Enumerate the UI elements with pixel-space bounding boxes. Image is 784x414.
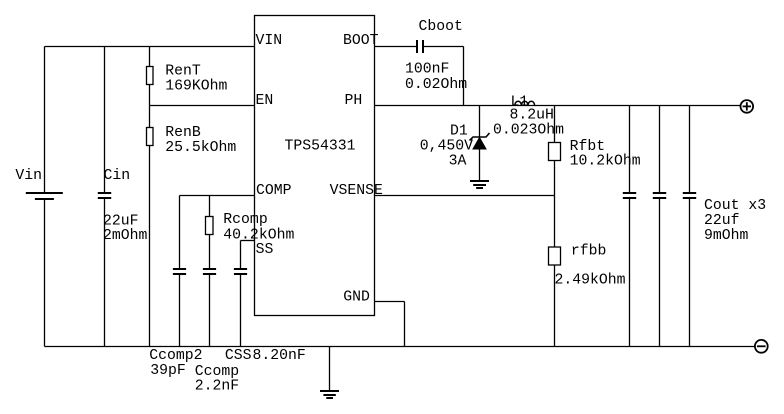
inductor L1 bbox=[515, 101, 535, 105]
node Vout- return terminal bbox=[755, 340, 768, 353]
svg-text:rfbb: rfbb bbox=[571, 244, 607, 260]
wire Cout2 top segment bbox=[659, 106, 661, 194]
wire RenB bottom segment to ground bus bbox=[149, 146, 151, 347]
svg-text:CSS: CSS bbox=[225, 348, 252, 364]
svg-text:39pF: 39pF bbox=[150, 363, 186, 379]
wire VSENSE net bbox=[375, 195, 555, 197]
op-amp U1 IC box TPS54331 bbox=[255, 16, 375, 316]
wire Cin bottom segment bbox=[104, 198, 106, 347]
svg-text:3A: 3A bbox=[449, 154, 467, 170]
svg-text:40.2kOhm: 40.2kOhm bbox=[223, 227, 294, 243]
wire GND drop to ground bus bbox=[404, 302, 406, 347]
battery Vin symbol bbox=[26, 193, 63, 199]
wire Cboot right plate to corner bbox=[423, 46, 464, 48]
svg-text:25.5kOhm: 25.5kOhm bbox=[165, 140, 236, 156]
node Vout+ output terminal bbox=[741, 100, 754, 113]
capacitor Ccomp2 symbol bbox=[173, 269, 186, 274]
wire GND pin lead bbox=[375, 301, 405, 303]
capacitor Cout1 symbol bbox=[623, 193, 636, 198]
diode D1 (zener, cathode up) bbox=[470, 133, 490, 149]
svg-text:100nF: 100nF bbox=[405, 61, 449, 77]
svg-text:Rcomp: Rcomp bbox=[223, 212, 267, 228]
resistor Rcomp bbox=[206, 217, 214, 235]
capacitor Cin symbol bbox=[98, 193, 111, 198]
svg-text:22uf: 22uf bbox=[704, 213, 740, 229]
svg-text:SS: SS bbox=[256, 242, 274, 258]
wire feedback column top (PH to Rfbt) bbox=[554, 106, 556, 143]
svg-text:0.02Ohm: 0.02Ohm bbox=[405, 77, 467, 93]
wire PH output rail bbox=[375, 105, 741, 107]
svg-text:2.49kOhm: 2.49kOhm bbox=[555, 273, 626, 289]
ground symbol at bottom centre bbox=[320, 391, 339, 398]
wire RenT top lead bbox=[149, 47, 151, 68]
wire ground stub below bus bbox=[329, 347, 331, 392]
svg-text:VIN: VIN bbox=[256, 33, 283, 49]
wire Cin top segment bbox=[104, 47, 106, 194]
resistor Rfbt bbox=[549, 143, 561, 161]
svg-text:GND: GND bbox=[343, 290, 370, 306]
svg-text:COMP: COMP bbox=[256, 183, 292, 199]
svg-text:Cin: Cin bbox=[104, 168, 131, 184]
capacitor Cout3 symbol bbox=[683, 193, 696, 198]
wire Cout3 bottom segment bbox=[689, 198, 691, 347]
wire battery top segment bbox=[44, 47, 46, 194]
wire battery bottom segment bbox=[44, 199, 46, 347]
wire EN net bbox=[150, 105, 255, 107]
wire Cout1 bottom segment bbox=[629, 198, 631, 347]
svg-text:Ccomp2: Ccomp2 bbox=[149, 348, 202, 364]
svg-text:TPS54331: TPS54331 bbox=[285, 139, 356, 155]
wire RenT bottom lead to EN node bbox=[149, 85, 151, 106]
capacitor Ccomp symbol bbox=[203, 269, 216, 274]
svg-text:VSENSE: VSENSE bbox=[330, 183, 383, 199]
svg-text:RenT: RenT bbox=[165, 64, 201, 80]
resistor rfbb bbox=[549, 247, 561, 265]
resistor RenT bbox=[147, 67, 154, 85]
svg-text:Cboot: Cboot bbox=[419, 19, 463, 35]
wire ground bus bbox=[45, 346, 755, 348]
svg-text:D1: D1 bbox=[450, 123, 468, 139]
svg-text:PH: PH bbox=[345, 93, 363, 109]
svg-text:EN: EN bbox=[256, 93, 274, 109]
wire Ccomp2 bottom segment bbox=[179, 274, 181, 347]
wire Rcomp top lead bbox=[209, 196, 211, 217]
svg-text:10.2kOhm: 10.2kOhm bbox=[570, 153, 641, 169]
wire Ccomp bottom segment bbox=[209, 274, 211, 347]
wire Rfbt to VSENSE node bbox=[554, 161, 556, 248]
wire rfbb bottom segment to ground bus bbox=[554, 265, 556, 347]
svg-text:RenB: RenB bbox=[165, 125, 201, 141]
svg-text:Cout x3: Cout x3 bbox=[704, 198, 766, 214]
svg-text:BOOT: BOOT bbox=[343, 33, 379, 49]
svg-text:Vin: Vin bbox=[15, 168, 42, 184]
svg-text:8.2uH: 8.2uH bbox=[510, 107, 554, 123]
resistor RenB bbox=[147, 128, 154, 146]
capacitor Cboot symbol bbox=[417, 40, 423, 53]
svg-text:8.20nF: 8.20nF bbox=[253, 348, 306, 364]
wire COMP net bbox=[180, 195, 255, 197]
wire D1 cathode lead to ground bbox=[479, 149, 481, 181]
wire SS net bbox=[241, 240, 255, 242]
wire VIN rail from battery to pin VIN bbox=[45, 46, 255, 48]
wire CSS bottom segment bbox=[240, 274, 242, 347]
svg-text:169KOhm: 169KOhm bbox=[165, 79, 227, 95]
wire Cout1 top segment bbox=[629, 106, 631, 194]
wire Rcomp to Ccomp segment bbox=[209, 235, 211, 270]
svg-text:2mOhm: 2mOhm bbox=[103, 228, 148, 244]
wire Cout2 bottom segment bbox=[659, 198, 661, 347]
svg-text:2.2nF: 2.2nF bbox=[195, 379, 239, 395]
svg-text:Ccomp: Ccomp bbox=[195, 364, 239, 380]
svg-text:0.023Ohm: 0.023Ohm bbox=[493, 122, 564, 138]
wire Cout3 top segment bbox=[689, 106, 691, 194]
ground symbol below D1 bbox=[470, 181, 489, 188]
wire RenB top lead bbox=[149, 106, 151, 128]
capacitor CSS symbol bbox=[234, 269, 247, 274]
capacitor Cout2 symbol bbox=[653, 193, 666, 198]
svg-text:0,450V: 0,450V bbox=[420, 138, 473, 154]
wire Ccomp2 top segment bbox=[179, 196, 181, 270]
wire D1 anode lead from PH rail bbox=[479, 106, 481, 138]
wire BOOT pin to Cboot left plate bbox=[375, 46, 418, 48]
wire Cboot drop to PH rail bbox=[463, 47, 465, 106]
svg-text:9mOhm: 9mOhm bbox=[704, 228, 749, 244]
wire CSS top segment bbox=[240, 241, 242, 270]
